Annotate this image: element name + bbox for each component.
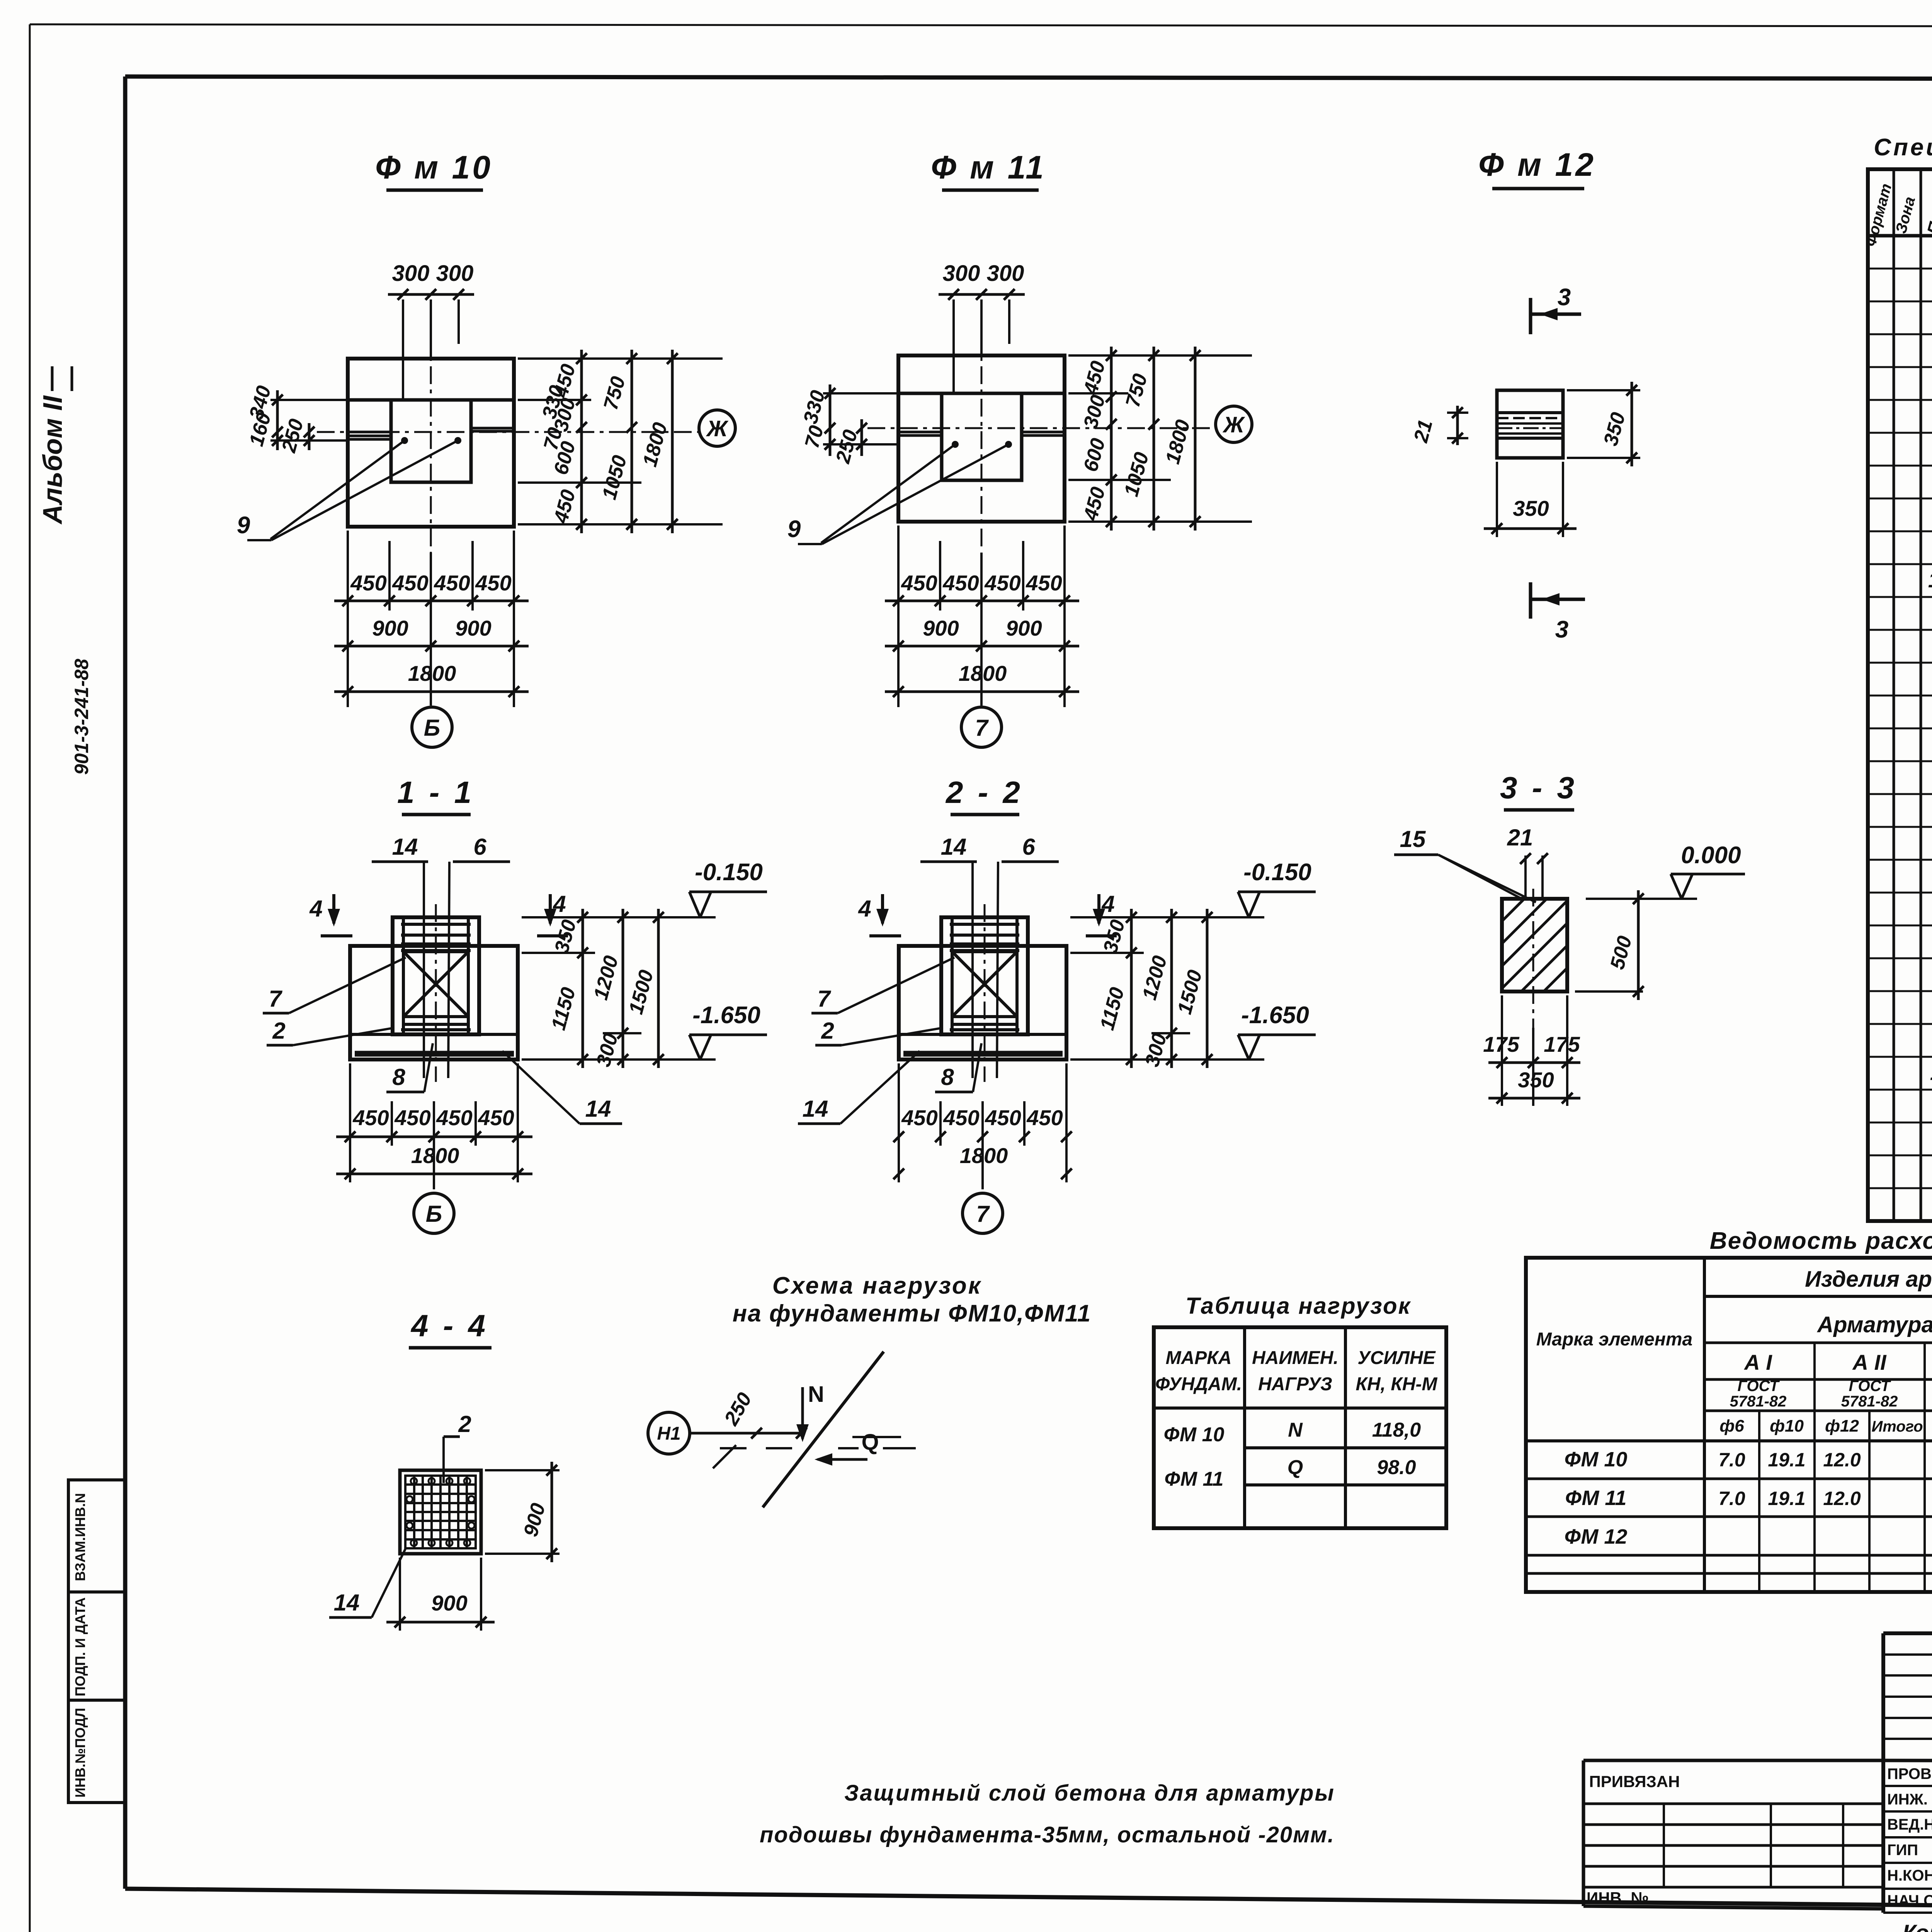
svg-text:ФМ 12: ФМ 12: [1565, 1525, 1628, 1548]
svg-text:1800: 1800: [408, 661, 456, 685]
steel table title: [1710, 1228, 1932, 1254]
album label: [37, 366, 72, 525]
svg-text:3: 3: [1555, 616, 1568, 643]
svg-text:Ф м 10: Ф м 10: [375, 149, 493, 185]
svg-text:7: 7: [976, 1201, 990, 1227]
label 9 FM11: [787, 516, 801, 543]
section 3-3 elevation 0.000: [1575, 842, 1745, 992]
svg-text:0.000: 0.000: [1681, 842, 1741, 869]
section 3-3 leader 15: [1394, 826, 1536, 902]
title block mini grid: [1883, 1633, 1932, 1760]
svg-text:1800: 1800: [960, 1143, 1008, 1168]
svg-text:ф12: ф12: [1825, 1417, 1859, 1435]
plan FM11 title: [931, 149, 1046, 190]
svg-text:Спецификация монолитных фундам: Спецификация монолитных фундаментов ФМ 1…: [1874, 134, 1932, 161]
title block signature rows: [1883, 1760, 1932, 1913]
svg-text:450: 450: [943, 1105, 979, 1130]
dim FM11 top 300+300: [939, 261, 1025, 393]
section 1 - 1 leader labels 14 and 6: [372, 834, 510, 1078]
svg-text:-0.150: -0.150: [695, 859, 763, 886]
svg-text:12.0: 12.0: [1823, 1449, 1861, 1471]
load scheme force Q: [815, 1430, 916, 1466]
svg-text:4: 4: [858, 896, 871, 922]
section 3-3 dim 500: [1606, 890, 1644, 1000]
svg-text:12.0: 12.0: [1823, 1488, 1861, 1509]
svg-text:450: 450: [394, 1105, 430, 1130]
svg-text:Арматура класса: Арматура класса: [1816, 1312, 1932, 1337]
svg-text:3 - 3: 3 - 3: [1500, 770, 1577, 805]
section 1 - 1 leaders 7 and 2: [263, 957, 406, 1045]
svg-text:7.0: 7.0: [1718, 1488, 1745, 1509]
svg-text:8: 8: [941, 1064, 954, 1090]
svg-text:Ж: Ж: [1222, 412, 1245, 437]
svg-text:МАРКА: МАРКА: [1166, 1348, 1232, 1368]
spec table headers: [1862, 182, 1932, 248]
dim FM10 top 300+300: [388, 261, 474, 400]
svg-text:Марка элемента: Марка элемента: [1536, 1329, 1693, 1350]
plan FM10 ledge lines: [348, 428, 514, 439]
load table header texts: [1155, 1348, 1438, 1395]
section 4-4 dim 900 bottom: [386, 1558, 495, 1631]
section 2 - 2 footing body: [899, 917, 1066, 1060]
svg-text:ПРОВЕР.: ПРОВЕР.: [1887, 1765, 1932, 1782]
svg-text:7: 7: [817, 986, 831, 1012]
svg-text:350: 350: [1518, 1068, 1554, 1092]
svg-text:Q: Q: [861, 1430, 879, 1455]
section 4-4 leader 2: [444, 1411, 471, 1483]
svg-text:1800: 1800: [959, 661, 1007, 685]
svg-text:450: 450: [478, 1105, 514, 1130]
section 2 - 2 axis circle: [963, 1193, 1003, 1233]
svg-text:900: 900: [372, 616, 408, 640]
dim FM10 bottom 450x4: [334, 531, 529, 707]
svg-text:ИНЖ.: ИНЖ.: [1887, 1791, 1928, 1808]
svg-text:2 - 2: 2 - 2: [945, 775, 1023, 810]
section 1 - 1 axis: [435, 904, 437, 1082]
svg-text:ФМ 10: ФМ 10: [1164, 1423, 1225, 1446]
spec rows FM10 data: [1928, 371, 1932, 592]
dim FM11 right chain 1800: [1162, 347, 1201, 531]
title block frame: [1883, 1633, 1932, 1913]
section 3-3 column body hatched: [1502, 899, 1567, 992]
svg-text:6: 6: [1022, 834, 1035, 860]
svg-text:450: 450: [436, 1105, 472, 1130]
svg-text:ф6: ф6: [1719, 1417, 1744, 1435]
svg-text:4 - 4: 4 - 4: [410, 1308, 488, 1343]
section 3-3 axis: [1532, 889, 1534, 1028]
svg-text:ИНВ.№ПОДЛ: ИНВ.№ПОДЛ: [72, 1708, 88, 1798]
dim FM11 bottom 1800: [885, 661, 1079, 697]
svg-text:19.1: 19.1: [1768, 1449, 1805, 1471]
svg-text:6: 6: [473, 834, 486, 860]
section 4-4 mesh grid: [400, 1470, 481, 1554]
section 1 - 1 footing body: [350, 917, 518, 1060]
svg-text:ВЗАМ.ИНВ.N: ВЗАМ.ИНВ.N: [72, 1493, 88, 1581]
section 4-4 dim 900 right: [485, 1462, 560, 1562]
plan FM11 outline: [898, 355, 1065, 522]
plan FM10 anchor points: [247, 437, 461, 540]
plan FM11 anchor points: [798, 441, 1012, 544]
svg-text:450: 450: [985, 1105, 1021, 1130]
spec rows FM12: [1930, 992, 1932, 1089]
load scheme axis circle N1: [648, 1389, 807, 1454]
load table data: [1164, 1419, 1421, 1490]
svg-text:Альбом II: Альбом II: [37, 395, 68, 525]
dim FM10 right chain 750-1050: [598, 350, 637, 533]
load scheme force N: [796, 1382, 824, 1442]
section 1 - 1 bottom dims: [336, 1063, 532, 1189]
svg-text:-0.150: -0.150: [1243, 859, 1311, 886]
svg-text:7.0: 7.0: [1718, 1449, 1745, 1471]
axis circle 7 FM11: [961, 707, 1002, 747]
dim FM10 bottom 1800: [334, 661, 529, 697]
plan FM10 title: [375, 149, 493, 190]
axis circle Zh FM10: [699, 410, 735, 446]
dim FM10 left 340 160 250: [245, 383, 348, 455]
section 4-4 leader 14: [329, 1549, 405, 1617]
svg-text:900: 900: [431, 1591, 467, 1615]
svg-text:-1.650: -1.650: [1241, 1002, 1309, 1029]
load scheme break marks: [713, 1445, 792, 1468]
svg-text:Н1: Н1: [657, 1423, 680, 1444]
svg-text:14: 14: [585, 1096, 611, 1122]
dim FM12 bottom 350: [1484, 462, 1577, 537]
svg-text:КН, КН-М: КН, КН-М: [1356, 1374, 1438, 1395]
svg-text:ФМ 10: ФМ 10: [1565, 1448, 1628, 1471]
axis circle B FM10: [412, 707, 452, 747]
left stamp boxes: [68, 1480, 125, 1803]
svg-text:подошвы фундамента-35мм, остал: подошвы фундамента-35мм, остальной -20мм…: [760, 1822, 1335, 1847]
steel table grid: [1526, 1258, 1932, 1592]
svg-text:1800: 1800: [411, 1143, 459, 1168]
section 1 - 1 elevation -1.650: [689, 1002, 767, 1060]
svg-text:19.1: 19.1: [1768, 1488, 1805, 1509]
svg-text:14: 14: [1928, 568, 1932, 592]
section 2 - 2 title: [945, 775, 1023, 815]
svg-text:Б: Б: [424, 715, 440, 741]
section 2 - 2 leader 14 bottom: [798, 1051, 920, 1124]
svg-text:15: 15: [1400, 826, 1426, 852]
svg-text:7: 7: [269, 986, 282, 1012]
svg-text:УСИЛНЕ: УСИЛНЕ: [1357, 1348, 1436, 1368]
svg-text:450: 450: [352, 1105, 389, 1130]
svg-text:Ведомость расхода стали на оди: Ведомость расхода стали на один элемент,…: [1710, 1228, 1932, 1254]
spec table grid: [1868, 169, 1932, 1221]
dim FM11 left 330 70 250: [799, 384, 898, 466]
plan FM12 body: [1497, 390, 1563, 458]
dim FM10 right chain 450-300-600-450: [518, 350, 723, 533]
svg-text:ГИП: ГИП: [1887, 1842, 1918, 1859]
svg-text:Итого: Итого: [1871, 1418, 1923, 1435]
section 2 - 2 axis: [984, 904, 986, 1082]
section 2 - 2 elevation -0.150: [1238, 859, 1316, 917]
document number 901-3-241-88: [71, 659, 92, 775]
svg-text:4: 4: [309, 896, 322, 922]
spec table title: [1874, 134, 1932, 161]
svg-text:300: 300: [987, 261, 1024, 286]
svg-text:9: 9: [237, 512, 250, 539]
svg-text:Q: Q: [1287, 1456, 1303, 1479]
svg-text:300: 300: [943, 261, 980, 286]
svg-text:450: 450: [434, 571, 470, 595]
plan FM10 axes: [317, 301, 699, 553]
svg-text:98.0: 98.0: [1377, 1456, 1416, 1479]
plan FM10 outline: [348, 359, 514, 527]
section mark 3 lower: [1531, 582, 1585, 643]
plan FM11 axes: [867, 301, 1215, 551]
svg-text:15: 15: [1930, 1060, 1932, 1085]
svg-text:300: 300: [436, 261, 474, 286]
svg-text:Ф м 11: Ф м 11: [931, 149, 1046, 185]
svg-text:Б: Б: [426, 1201, 442, 1227]
section 2 - 2 leader 8: [935, 1043, 981, 1092]
section 2 - 2 leaders 7 and 2: [811, 957, 954, 1045]
svg-text:21: 21: [1507, 825, 1533, 850]
dim FM12 right 350: [1567, 382, 1640, 466]
svg-text:Изделия арматурные: Изделия арматурные: [1805, 1267, 1932, 1292]
section 1 - 1 mesh lines: [401, 924, 471, 1030]
steel table headers: [1536, 1267, 1932, 1435]
section 2 - 2 right dim chains: [1070, 909, 1264, 1069]
svg-text:-1.650: -1.650: [692, 1002, 760, 1029]
svg-text:450: 450: [475, 571, 511, 595]
section 1 - 1 right dim chains: [522, 909, 716, 1069]
svg-text:5781-82: 5781-82: [1841, 1393, 1898, 1410]
svg-text:450: 450: [350, 571, 386, 595]
plan FM12 title: [1478, 146, 1596, 189]
section 1 - 1 cut arrows 4: [309, 891, 568, 936]
dim FM12 21 left: [1410, 406, 1468, 445]
section 2 - 2 bottom dims: [336, 1063, 1072, 1189]
svg-text:900: 900: [923, 616, 959, 640]
svg-text:ФМ 11: ФМ 11: [1565, 1486, 1627, 1510]
svg-text:900: 900: [455, 616, 491, 640]
load table title: [1185, 1293, 1411, 1319]
section 1 - 1 title: [397, 775, 474, 815]
svg-text:ПРИВЯЗАН: ПРИВЯЗАН: [1589, 1772, 1680, 1791]
svg-text:ГОСТ: ГОСТ: [1738, 1378, 1781, 1395]
svg-text:14: 14: [334, 1590, 360, 1616]
svg-text:450: 450: [942, 571, 979, 595]
svg-text:Ж: Ж: [706, 416, 729, 441]
section mark 3 upper: [1531, 284, 1581, 334]
svg-text:5781-82: 5781-82: [1730, 1393, 1787, 1410]
svg-text:ГОСТ: ГОСТ: [1849, 1378, 1892, 1395]
svg-text:на фундаменты ФМ10,ФМ11: на фундаменты ФМ10,ФМ11: [733, 1300, 1091, 1327]
svg-text:Схема нагрузок: Схема нагрузок: [772, 1272, 982, 1299]
svg-text:2: 2: [458, 1411, 471, 1437]
section 1 - 1 elevation -0.150: [689, 859, 767, 917]
svg-text:1 - 1: 1 - 1: [397, 775, 474, 810]
svg-text:14: 14: [803, 1096, 828, 1122]
section 2 - 2 elevation -1.650: [1238, 1002, 1316, 1060]
svg-text:НАИМЕН.: НАИМЕН.: [1252, 1348, 1338, 1368]
svg-text:7: 7: [975, 715, 989, 741]
section 1 - 1 leader 14 bottom: [502, 1051, 622, 1124]
svg-text:Таблица нагрузок: Таблица нагрузок: [1185, 1293, 1411, 1319]
svg-text:14: 14: [392, 834, 418, 860]
section 1 - 1 axis circle: [414, 1193, 454, 1233]
section 2 - 2 cross bracing: [952, 952, 1017, 1017]
dim FM11 right chain 750-1050: [1120, 347, 1159, 531]
axis circle Zh FM11: [1216, 406, 1252, 442]
svg-text:3: 3: [1558, 284, 1571, 311]
svg-text:8: 8: [392, 1064, 405, 1090]
load scheme title: [733, 1272, 1091, 1327]
svg-text:900: 900: [1006, 616, 1042, 640]
svg-text:450: 450: [392, 571, 428, 595]
svg-text:N: N: [1288, 1419, 1303, 1441]
section 1 - 1 leader 8: [386, 1043, 433, 1092]
svg-text:ВЕД.НИЖ: ВЕД.НИЖ: [1887, 1816, 1932, 1833]
svg-text:901-3-241-88: 901-3-241-88: [71, 659, 92, 775]
dim FM11 bottom 450x4: [885, 526, 1079, 707]
svg-text:450: 450: [901, 1105, 937, 1130]
steel table data rows: [1565, 1445, 1932, 1548]
dim FM10 right chain 1800: [639, 350, 678, 533]
svg-text:2: 2: [821, 1018, 834, 1044]
svg-text:175: 175: [1483, 1032, 1519, 1056]
svg-text:А I: А I: [1743, 1350, 1772, 1374]
load scheme column line: [763, 1352, 884, 1507]
svg-text:9: 9: [787, 516, 801, 543]
svg-text:2: 2: [272, 1018, 285, 1044]
dim FM11 right chain 450-300-600-450: [1068, 347, 1252, 531]
dim FM10 bottom 900+900: [334, 616, 529, 651]
svg-text:Копировал: Алешикова: Копировал: Алешикова: [1902, 1920, 1932, 1932]
plan FM11 ledge lines: [898, 432, 1065, 435]
svg-text:450: 450: [901, 571, 937, 595]
svg-text:350: 350: [1513, 496, 1549, 520]
section 3-3 title: [1500, 770, 1577, 810]
section 2 - 2 cut arrows 4: [858, 891, 1117, 936]
svg-text:175: 175: [1544, 1032, 1580, 1056]
svg-text:N: N: [808, 1382, 824, 1407]
label 9 FM10: [237, 512, 250, 539]
section 2 - 2 leader labels 14 and 6: [920, 834, 1059, 1078]
svg-text:118,0: 118,0: [1372, 1419, 1421, 1441]
section 3-3 dim 21: [1507, 825, 1548, 900]
svg-text:ФМ 11: ФМ 11: [1165, 1468, 1224, 1490]
protective layer note: [760, 1781, 1335, 1847]
svg-text:300: 300: [392, 261, 430, 286]
svg-text:НАЧ.ОТД: НАЧ.ОТД: [1887, 1892, 1932, 1909]
svg-text:ИНВ. №: ИНВ. №: [1587, 1889, 1649, 1907]
svg-text:НАГРУЗ: НАГРУЗ: [1258, 1374, 1332, 1395]
svg-text:450: 450: [1026, 1105, 1063, 1130]
section 3-3 bottom dims 175+175 and 350: [1483, 995, 1580, 1106]
svg-text:А II: А II: [1852, 1350, 1887, 1374]
section 1 - 1 cross bracing: [403, 952, 468, 1017]
svg-text:Н.КОНТР: Н.КОНТР: [1887, 1867, 1932, 1884]
title block attach box: [1583, 1760, 1883, 1909]
section 4-4 title: [409, 1308, 492, 1348]
svg-text:ф10: ф10: [1770, 1417, 1804, 1435]
svg-text:14: 14: [941, 834, 967, 860]
svg-text:ПОДП. И ДАТА: ПОДП. И ДАТА: [72, 1597, 88, 1696]
svg-text:Защитный слой бетона для а: Защитный слой бетона для арматуры: [844, 1781, 1335, 1806]
copied by: [1816, 1920, 1932, 1932]
svg-text:450: 450: [984, 571, 1020, 595]
section 2 - 2 mesh lines: [950, 924, 1019, 1030]
dim FM11 bottom 900+900: [885, 616, 1079, 651]
load table grid: [1154, 1327, 1446, 1528]
svg-text:ФУНДАМ.: ФУНДАМ.: [1155, 1374, 1242, 1395]
svg-text:450: 450: [1026, 571, 1062, 595]
svg-text:Ф м 12: Ф м 12: [1478, 146, 1596, 183]
